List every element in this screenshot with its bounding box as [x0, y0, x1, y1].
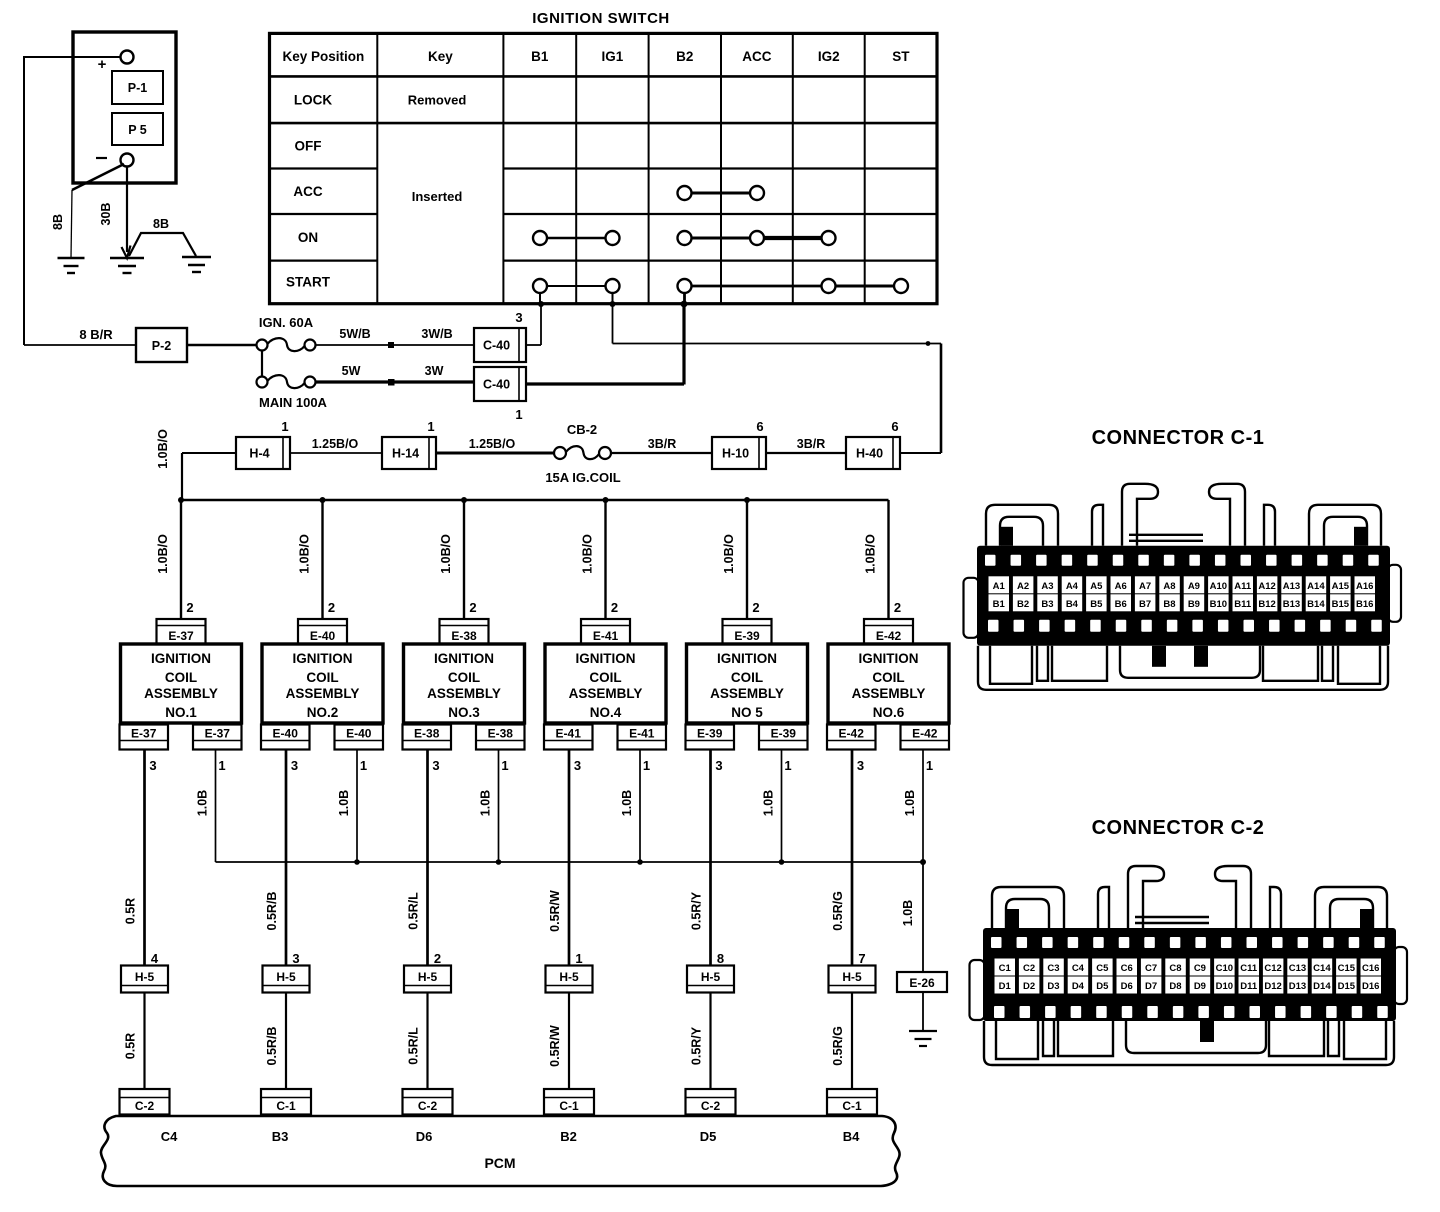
svg-text:3: 3 [292, 951, 299, 966]
svg-text:IGNITION: IGNITION [434, 651, 494, 666]
connector H-5 pin 3 [263, 951, 310, 993]
connector E-38 pin 2 [440, 619, 489, 644]
svg-text:P-1: P-1 [128, 81, 148, 95]
svg-text:MAIN 100A: MAIN 100A [259, 395, 328, 410]
svg-text:D14: D14 [1313, 981, 1331, 992]
svg-text:1.0B: 1.0B [337, 790, 351, 816]
svg-text:D16: D16 [1362, 981, 1379, 992]
svg-text:B16: B16 [1356, 599, 1373, 610]
svg-text:0.5R/L: 0.5R/L [407, 892, 421, 930]
svg-text:30B: 30B [99, 203, 113, 226]
svg-text:E-41: E-41 [629, 727, 655, 741]
svg-text:E-38: E-38 [488, 727, 514, 741]
svg-text:C16: C16 [1362, 963, 1379, 974]
connector C-40 (pin 1) [474, 367, 526, 422]
svg-text:B14: B14 [1307, 599, 1325, 610]
connector E-37 pin 2 [157, 619, 206, 644]
connector E-39 pin 2 [723, 619, 772, 644]
wire 1.0B/O drop to coil 6 [864, 500, 902, 619]
wire 0.5R/L coil 3 pin 3 [407, 750, 428, 966]
svg-text:6: 6 [891, 419, 898, 434]
svg-text:0.5R/G: 0.5R/G [831, 1026, 845, 1066]
svg-text:IGNITION: IGNITION [717, 651, 777, 666]
svg-text:D15: D15 [1338, 981, 1356, 992]
svg-text:E-39: E-39 [697, 727, 723, 741]
svg-text:A9: A9 [1188, 581, 1200, 592]
svg-text:0.5R/W: 0.5R/W [548, 1025, 562, 1067]
svg-text:H-5: H-5 [701, 970, 721, 984]
svg-text:1.0B: 1.0B [762, 790, 776, 816]
svg-text:D13: D13 [1289, 981, 1306, 992]
wire to ground [922, 992, 924, 1031]
wire 1.25B/O bold [436, 437, 554, 453]
wire 1.0B/O drop to coil 1 [156, 500, 194, 619]
svg-text:E-37: E-37 [205, 727, 231, 741]
wire 0.5R coil 1 pin 3 [124, 750, 145, 966]
svg-text:IGNITION: IGNITION [576, 651, 636, 666]
PCM pin labels [161, 1129, 860, 1144]
svg-text:E-37: E-37 [168, 629, 194, 643]
svg-text:Removed: Removed [408, 93, 467, 108]
svg-text:D1: D1 [999, 981, 1012, 992]
svg-text:1.0B: 1.0B [903, 790, 917, 816]
svg-text:+: + [98, 56, 107, 73]
svg-text:LOCK: LOCK [294, 92, 332, 107]
svg-text:NO.1: NO.1 [165, 705, 197, 720]
svg-text:D4: D4 [1072, 981, 1085, 992]
svg-text:1: 1 [784, 758, 791, 773]
svg-text:1.0B: 1.0B [901, 900, 915, 926]
svg-text:A5: A5 [1090, 581, 1103, 592]
connector E-41 pin 3 [544, 725, 593, 774]
svg-text:A13: A13 [1283, 581, 1300, 592]
wire 0.5R/W to PCM [548, 993, 569, 1090]
table header labels [283, 49, 911, 64]
wire 0.5R/B to PCM [265, 993, 286, 1090]
svg-text:2: 2 [328, 600, 335, 615]
wire 0.5R to PCM [124, 993, 145, 1090]
svg-text:B1: B1 [993, 599, 1006, 610]
svg-text:1.0B: 1.0B [196, 790, 210, 816]
svg-text:2: 2 [752, 600, 759, 615]
wire 8 B/R [24, 327, 136, 345]
svg-text:1: 1 [218, 758, 225, 773]
connector E-37 pin 3 [120, 725, 169, 774]
svg-text:C-1: C-1 [842, 1099, 862, 1113]
wire 0.5R/G coil 6 pin 3 [831, 750, 852, 966]
wire 1.0B coil 3 pin 1 [479, 750, 499, 863]
svg-text:ASSEMBLY: ASSEMBLY [569, 686, 643, 701]
svg-text:0.5R/L: 0.5R/L [407, 1027, 421, 1065]
svg-text:ON: ON [298, 230, 318, 245]
svg-text:H-40: H-40 [856, 447, 883, 461]
svg-text:A8: A8 [1163, 581, 1175, 592]
svg-text:C2: C2 [1023, 963, 1035, 974]
ignition coil assembly no.1 [121, 644, 242, 723]
svg-text:B8: B8 [1163, 599, 1175, 610]
svg-text:0.5R/B: 0.5R/B [265, 1027, 279, 1066]
svg-text:3: 3 [857, 758, 864, 773]
svg-text:1: 1 [360, 758, 367, 773]
svg-text:ASSEMBLY: ASSEMBLY [427, 686, 501, 701]
wire 1.0B coil 4 pin 1 [620, 750, 640, 863]
svg-text:IG2: IG2 [818, 49, 840, 64]
svg-text:COIL: COIL [306, 670, 338, 685]
wire battery + to left rail [24, 56, 121, 345]
connector C-2 [686, 1089, 736, 1115]
svg-text:C8: C8 [1169, 963, 1181, 974]
svg-text:C9: C9 [1194, 963, 1206, 974]
battery + terminal [98, 51, 134, 74]
svg-text:CONNECTOR C-1: CONNECTOR C-1 [1092, 427, 1265, 449]
svg-text:8B: 8B [153, 217, 169, 231]
svg-text:B13: B13 [1283, 599, 1300, 610]
connector H-5 pin 2 [404, 951, 451, 993]
battery / power supply box [73, 32, 176, 183]
ignition coil assembly no.6 [828, 644, 949, 723]
svg-text:1: 1 [575, 951, 582, 966]
svg-text:B4: B4 [1066, 599, 1079, 610]
svg-text:3: 3 [574, 758, 581, 773]
svg-text:1.0B/O: 1.0B/O [439, 534, 453, 574]
svg-text:3: 3 [515, 310, 522, 325]
svg-text:B12: B12 [1258, 599, 1275, 610]
wire 1.0B/O drop to coil 5 [722, 500, 760, 619]
wire 1.0B/O drop to coil 3 [439, 500, 477, 619]
svg-text:E-37: E-37 [131, 727, 157, 741]
svg-text:D10: D10 [1216, 981, 1233, 992]
wire 1.0B coil 5 pin 1 [762, 750, 782, 863]
wire 0.5R/B coil 2 pin 3 [265, 750, 286, 966]
ignition coil assembly no.3 [404, 644, 525, 723]
svg-text:B1: B1 [531, 49, 549, 64]
svg-text:2: 2 [469, 600, 476, 615]
svg-text:8 B/R: 8 B/R [79, 327, 113, 342]
connector E-26 [897, 972, 947, 992]
battery - terminal [96, 154, 134, 167]
svg-text:IGNITION: IGNITION [293, 651, 353, 666]
svg-text:D2: D2 [1023, 981, 1035, 992]
wire 1.0B to E-26 [901, 862, 923, 972]
svg-text:3B/R: 3B/R [797, 437, 825, 451]
wire 3B/R [611, 437, 712, 453]
svg-text:H-10: H-10 [722, 447, 749, 461]
svg-text:ACC: ACC [742, 49, 771, 64]
svg-text:1.0B: 1.0B [479, 790, 493, 816]
svg-text:3: 3 [715, 758, 722, 773]
svg-text:A14: A14 [1307, 581, 1325, 592]
svg-text:1.25B/O: 1.25B/O [312, 437, 359, 451]
svg-text:0.5R: 0.5R [124, 1033, 138, 1059]
svg-text:A11: A11 [1234, 581, 1252, 592]
svg-text:COIL: COIL [731, 670, 763, 685]
svg-text:H-14: H-14 [392, 447, 419, 461]
svg-text:A1: A1 [993, 581, 1006, 592]
svg-text:H-5: H-5 [842, 970, 862, 984]
wire 8B jumper [129, 217, 196, 256]
svg-text:D12: D12 [1264, 981, 1281, 992]
svg-text:8: 8 [717, 951, 724, 966]
svg-text:6: 6 [756, 419, 763, 434]
junction P-2 [136, 328, 187, 362]
svg-text:1: 1 [281, 419, 288, 434]
svg-text:ASSEMBLY: ASSEMBLY [710, 686, 784, 701]
connector E-38 pin 1 [476, 725, 525, 774]
svg-text:E-38: E-38 [451, 629, 477, 643]
circuit breaker CB-2 15A IG.COIL [545, 422, 620, 485]
svg-text:C4: C4 [1072, 963, 1085, 974]
wire 0.5R/L to PCM [407, 993, 428, 1090]
connector E-40 pin 1 [335, 725, 384, 774]
wire 1.25B/O [290, 437, 382, 453]
connector E-42 pin 3 [827, 725, 876, 774]
svg-text:1: 1 [501, 758, 508, 773]
wire P-2 to fuses [187, 345, 262, 377]
connector C-40 (pin 3) [474, 310, 526, 362]
connector C-2 [120, 1089, 170, 1115]
svg-text:CB-2: CB-2 [567, 422, 597, 437]
svg-text:IGNITION: IGNITION [151, 651, 211, 666]
svg-text:B2: B2 [1017, 599, 1029, 610]
svg-text:OFF: OFF [295, 138, 322, 153]
switch contacts ON row B2-ACC-IG2 [678, 231, 836, 245]
connector E-40 pin 3 [261, 725, 310, 774]
connector E-38 pin 3 [403, 725, 452, 774]
wire 5W/B / 3W/B [316, 327, 475, 348]
wire 1.0B coil 2 pin 1 [337, 750, 357, 863]
svg-text:A12: A12 [1258, 581, 1275, 592]
connector E-42 pin 1 [901, 725, 950, 774]
wire 30B to ground [99, 166, 131, 258]
wire C-40 pin1 to B2 [526, 301, 687, 385]
svg-text:IGNITION: IGNITION [859, 651, 919, 666]
connector H-5 pin 7 [829, 951, 876, 993]
svg-text:B7: B7 [1139, 599, 1151, 610]
svg-text:B4: B4 [843, 1129, 860, 1144]
svg-text:C1: C1 [999, 963, 1012, 974]
svg-text:1.25B/O: 1.25B/O [469, 437, 516, 451]
svg-text:IGNITION SWITCH: IGNITION SWITCH [532, 10, 670, 27]
wire 3B/R 2 [766, 437, 846, 453]
key position row labels [286, 92, 332, 289]
svg-text:5W: 5W [342, 364, 361, 378]
svg-text:1.0B/O: 1.0B/O [298, 534, 312, 574]
svg-text:E-39: E-39 [734, 629, 760, 643]
svg-text:A10: A10 [1210, 581, 1227, 592]
svg-text:4: 4 [151, 951, 159, 966]
svg-text:B10: B10 [1210, 599, 1227, 610]
connector H-5 pin 1 [546, 951, 593, 993]
svg-text:3B/R: 3B/R [648, 437, 676, 451]
svg-text:ASSEMBLY: ASSEMBLY [144, 686, 218, 701]
svg-text:3W: 3W [425, 364, 444, 378]
svg-text:D5: D5 [700, 1129, 717, 1144]
svg-text:1.0B/O: 1.0B/O [156, 534, 170, 574]
connector E-40 pin 2 [298, 619, 347, 644]
svg-text:E-42: E-42 [839, 727, 865, 741]
svg-text:3: 3 [149, 758, 156, 773]
svg-text:2: 2 [611, 600, 618, 615]
svg-text:8B: 8B [51, 214, 65, 230]
svg-text:C-1: C-1 [559, 1099, 579, 1113]
svg-text:E-42: E-42 [876, 629, 902, 643]
connector E-37 pin 1 [193, 725, 242, 774]
svg-text:D6: D6 [416, 1129, 433, 1144]
svg-text:C11: C11 [1240, 963, 1258, 974]
connector H-40 (pin 6) [846, 419, 900, 469]
svg-text:A3: A3 [1041, 581, 1053, 592]
svg-text:1: 1 [643, 758, 650, 773]
ignition coil assembly no.5 [687, 644, 808, 723]
relay P-5 [112, 113, 163, 145]
svg-text:5W/B: 5W/B [339, 327, 370, 341]
svg-text:0.5R/B: 0.5R/B [265, 892, 279, 931]
svg-text:E-38: E-38 [414, 727, 440, 741]
switch contacts START row B1-IG1 [533, 279, 620, 293]
svg-text:2: 2 [186, 600, 193, 615]
svg-text:0.5R/W: 0.5R/W [548, 890, 562, 932]
svg-text:ST: ST [892, 49, 910, 64]
svg-text:C4: C4 [161, 1129, 178, 1144]
svg-text:B6: B6 [1115, 599, 1127, 610]
svg-text:B2: B2 [676, 49, 693, 64]
svg-text:A2: A2 [1017, 581, 1029, 592]
wire 0.5R/Y coil 5 pin 3 [690, 750, 711, 966]
svg-text:C-2: C-2 [701, 1099, 721, 1113]
switch contacts ACC row [678, 186, 765, 200]
svg-text:ACC: ACC [293, 184, 322, 199]
svg-text:D3: D3 [1047, 981, 1059, 992]
svg-text:E-40: E-40 [310, 629, 336, 643]
svg-text:1: 1 [926, 758, 933, 773]
fuse MAIN 100A [257, 375, 328, 410]
svg-text:1.0B/O: 1.0B/O [864, 534, 878, 574]
svg-text:IG1: IG1 [602, 49, 624, 64]
svg-text:3: 3 [432, 758, 439, 773]
connector H-5 pin 8 [687, 951, 734, 993]
svg-text:C13: C13 [1289, 963, 1306, 974]
svg-text:C6: C6 [1121, 963, 1133, 974]
svg-text:B9: B9 [1188, 599, 1200, 610]
svg-text:D8: D8 [1169, 981, 1181, 992]
svg-text:3W/B: 3W/B [421, 327, 452, 341]
connector H-10 (pin 6) [712, 419, 766, 469]
svg-text:PCM: PCM [484, 1155, 515, 1171]
wire 1.0B coil 6 pin 1 [903, 750, 923, 863]
svg-text:D9: D9 [1194, 981, 1206, 992]
ignition coil assembly no.2 [262, 644, 383, 723]
wire 1.0B/O drop to coil 4 [581, 500, 619, 619]
svg-text:A7: A7 [1139, 581, 1151, 592]
relay P-1 [112, 71, 163, 104]
svg-text:C15: C15 [1338, 963, 1356, 974]
svg-text:C10: C10 [1216, 963, 1233, 974]
key state labels [408, 93, 467, 205]
switch contacts START row B2-IG2-ST [678, 279, 909, 293]
connector E-42 pin 2 [864, 619, 913, 644]
wire 1.0B/O feed [156, 429, 236, 500]
svg-text:Inserted: Inserted [412, 189, 463, 204]
svg-text:D7: D7 [1145, 981, 1157, 992]
svg-text:E-40: E-40 [346, 727, 372, 741]
svg-text:B5: B5 [1090, 599, 1103, 610]
wire 0.5R/G to PCM [831, 993, 852, 1090]
svg-text:Key Position: Key Position [283, 49, 365, 64]
fuse IGN. 60A [257, 315, 316, 351]
svg-text:A15: A15 [1332, 581, 1350, 592]
svg-text:E-41: E-41 [556, 727, 582, 741]
connector C-1 [544, 1089, 594, 1115]
connector C-2 [403, 1089, 453, 1115]
svg-text:COIL: COIL [872, 670, 904, 685]
svg-text:P-2: P-2 [152, 339, 172, 353]
svg-text:A4: A4 [1066, 581, 1079, 592]
svg-text:2: 2 [434, 951, 441, 966]
wire 8B to ground [51, 190, 72, 258]
svg-text:NO.3: NO.3 [448, 705, 480, 720]
svg-text:H-5: H-5 [559, 970, 579, 984]
PCM box [101, 1116, 900, 1186]
svg-text:START: START [286, 275, 331, 290]
ground bus 1.0B [216, 859, 927, 865]
svg-text:P 5: P 5 [128, 123, 147, 137]
svg-text:COIL: COIL [589, 670, 621, 685]
wire 5W / 3W [316, 364, 475, 386]
svg-text:H-4: H-4 [249, 447, 269, 461]
svg-text:3: 3 [291, 758, 298, 773]
ignition coil assembly no.4 [545, 644, 666, 723]
svg-text:NO.4: NO.4 [590, 705, 622, 720]
svg-text:H-5: H-5 [418, 970, 438, 984]
svg-text:E-26: E-26 [909, 976, 935, 990]
svg-text:B11: B11 [1234, 599, 1252, 610]
ignition feed bus [181, 499, 889, 502]
connector E-41 pin 1 [618, 725, 667, 774]
svg-text:1: 1 [427, 419, 434, 434]
svg-text:D6: D6 [1121, 981, 1133, 992]
svg-text:C7: C7 [1145, 963, 1157, 974]
connector H-4 (pin 1) [236, 419, 290, 469]
svg-text:C-2: C-2 [135, 1099, 155, 1113]
svg-text:1: 1 [515, 407, 522, 422]
connector C-1 [964, 484, 1402, 690]
svg-text:C-40: C-40 [483, 378, 510, 392]
svg-text:0.5R: 0.5R [124, 898, 138, 924]
contact stubs to table bottom [540, 293, 685, 304]
bus junction nodes [178, 497, 750, 503]
svg-text:0.5R/G: 0.5R/G [831, 891, 845, 931]
wire 0.5R/W coil 4 pin 3 [548, 750, 569, 966]
wire 0.5R/Y to PCM [690, 993, 711, 1090]
svg-text:C-1: C-1 [276, 1099, 296, 1113]
svg-text:D5: D5 [1096, 981, 1109, 992]
svg-text:2: 2 [894, 600, 901, 615]
svg-text:IGN. 60A: IGN. 60A [259, 315, 314, 330]
svg-text:ASSEMBLY: ASSEMBLY [852, 686, 926, 701]
svg-text:C-40: C-40 [483, 339, 510, 353]
svg-text:H-5: H-5 [276, 970, 296, 984]
ground (8B right) [182, 257, 211, 272]
svg-text:A16: A16 [1356, 581, 1373, 592]
svg-text:NO.6: NO.6 [873, 705, 905, 720]
svg-text:0.5R/Y: 0.5R/Y [690, 1026, 704, 1065]
svg-text:E-39: E-39 [771, 727, 797, 741]
svg-text:NO.2: NO.2 [307, 705, 339, 720]
svg-text:H-5: H-5 [135, 970, 155, 984]
svg-text:C3: C3 [1047, 963, 1059, 974]
connector E-41 pin 2 [581, 619, 630, 644]
svg-text:COIL: COIL [165, 670, 197, 685]
